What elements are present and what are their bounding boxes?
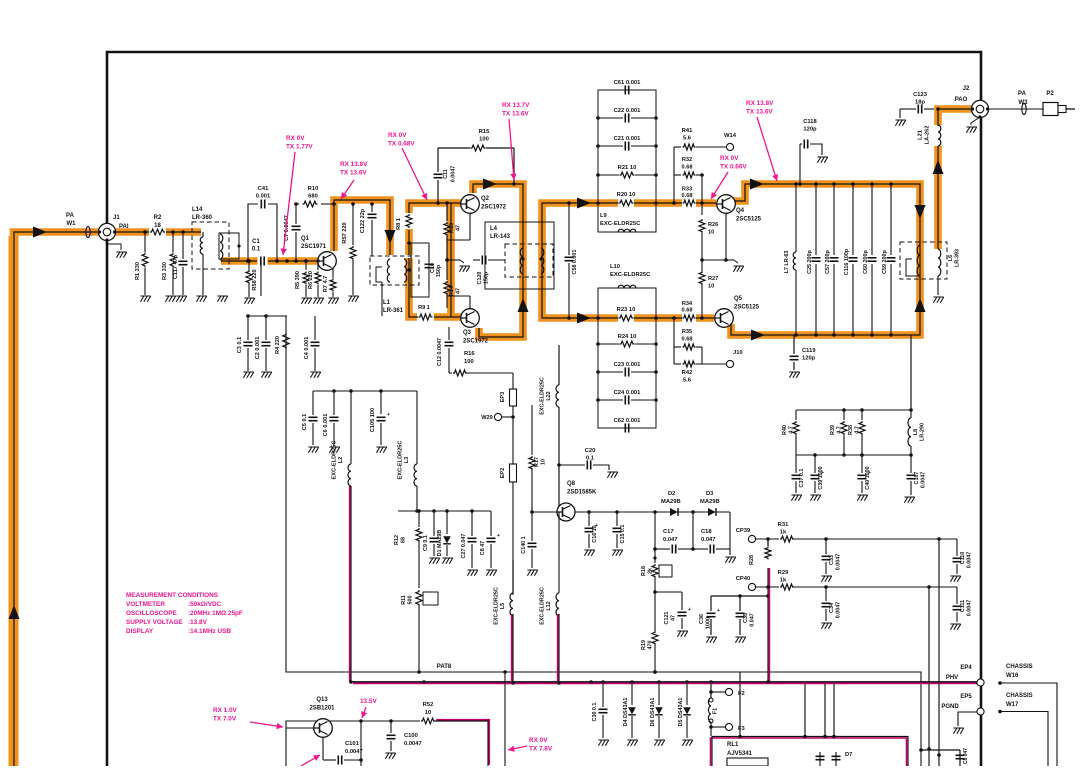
svg-text:Q3: Q3 (463, 330, 472, 336)
resistor R19 470 (652, 631, 658, 645)
ground under C37 (791, 495, 801, 501)
svg-text:680: 680 (308, 194, 318, 200)
ground under C110 (950, 576, 960, 582)
callout arrow 13.5V (362, 707, 366, 718)
svg-text:68: 68 (401, 537, 407, 543)
svg-text:C41: C41 (258, 186, 269, 192)
svg-text:RX 0V: RX 0V (529, 737, 548, 744)
svg-text:EXC-ELDR25C: EXC-ELDR25C (540, 587, 546, 625)
svg-text:R16: R16 (464, 351, 475, 357)
svg-text:C57 200p: C57 200p (825, 249, 831, 273)
vertical from bottom run to filter (910, 335, 912, 410)
svg-text:18: 18 (154, 223, 161, 229)
svg-text:DISPLAY: DISPLAY (126, 628, 154, 635)
svg-text:C4 0.001: C4 0.001 (304, 337, 310, 360)
svg-text:R6 220: R6 220 (308, 271, 314, 289)
svg-text:4.7: 4.7 (789, 426, 795, 434)
ground under C20 (607, 472, 617, 478)
svg-text:D3: D3 (706, 491, 714, 497)
svg-text:W16: W16 (1006, 673, 1019, 679)
svg-text:4.7: 4.7 (855, 426, 861, 434)
inductor L2 EXC-ELDR25C (350, 391, 352, 464)
svg-text:F1: F1 (713, 708, 719, 714)
svg-text:C1: C1 (252, 239, 260, 245)
svg-text:RX 0V: RX 0V (720, 155, 739, 162)
resistor R58 220 (248, 261, 250, 270)
capacitor C33 0.0047 (825, 539, 827, 554)
svg-text:RX 0V: RX 0V (388, 132, 407, 139)
svg-text:R52: R52 (423, 702, 434, 708)
svg-text:L21: L21 (918, 130, 924, 140)
ground under C30 (598, 740, 608, 746)
svg-text:C3 0.1: C3 0.1 (237, 337, 243, 353)
svg-text:TX 13.6V: TX 13.6V (340, 170, 367, 177)
svg-text:10: 10 (541, 459, 547, 465)
ground under C140 (527, 570, 537, 576)
svg-text:C140 1: C140 1 (521, 536, 527, 553)
ground under C119 (789, 372, 799, 378)
ground under R58 (244, 298, 254, 304)
svg-text:C62 0.001: C62 0.001 (614, 418, 642, 424)
svg-text:RX 13.8V: RX 13.8V (746, 100, 774, 107)
svg-text:W3: W3 (1019, 100, 1029, 106)
ground under C8 (486, 570, 496, 576)
svg-text:TX 7.8V: TX 7.8V (529, 746, 553, 753)
svg-text:Q2: Q2 (481, 196, 490, 202)
resistor R5 390 (305, 261, 307, 270)
cable to plug P2 (988, 108, 1043, 110)
capacitor C37 0.1 (792, 474, 801, 476)
relay unit outline (711, 738, 907, 768)
ground under C100 (385, 753, 395, 759)
vertical wire to lower units (504, 672, 506, 766)
svg-text:L14: L14 (192, 207, 203, 213)
transformer L6 LR-393 (900, 242, 947, 279)
ground under R1 (140, 296, 150, 302)
svg-text:RX 13.7V: RX 13.7V (502, 102, 530, 109)
terminal strip EP3 (512, 373, 514, 389)
svg-text:EXC-ELDR25C: EXC-ELDR25C (332, 441, 338, 480)
svg-text:R34: R34 (682, 301, 693, 307)
capacitor C3 0.1 (247, 316, 249, 340)
svg-text:120p: 120p (802, 356, 816, 362)
svg-text::13.8V: :13.8V (188, 619, 208, 626)
svg-text:R32: R32 (682, 157, 692, 163)
inductor L12 EXC-ELDR25C (558, 512, 560, 593)
wire 13.5V node (361, 720, 420, 722)
svg-text:C107: C107 (914, 472, 920, 485)
relay feed verticals (804, 683, 806, 736)
svg-text:C111: C111 (960, 600, 966, 612)
diode D4 DS43A1 (631, 682, 633, 705)
svg-text:SUPPLY VOLTAGE: SUPPLY VOLTAGE (126, 619, 183, 626)
svg-text:1k: 1k (780, 578, 787, 584)
svg-text:R11: R11 (401, 595, 407, 605)
svg-text:R17: R17 (534, 457, 540, 467)
svg-text:R4 220: R4 220 (275, 336, 281, 354)
svg-text:C118: C118 (803, 119, 817, 125)
resistor R14 47 (446, 260, 448, 280)
border frame of PA unit (107, 52, 981, 766)
svg-text:150p: 150p (484, 271, 490, 284)
svg-text:PAT8: PAT8 (437, 664, 452, 670)
ground at J1 (107, 240, 121, 250)
filter rails (796, 409, 911, 411)
svg-text:0.0047: 0.0047 (921, 472, 927, 489)
flow arrow right on bottom drive run (577, 313, 591, 324)
svg-text::14.1MHz USB: :14.1MHz USB (188, 628, 231, 635)
capacitor C12 0.0047 (448, 327, 450, 340)
capacitor C5 0.1 (312, 391, 314, 415)
svg-text:Q1: Q1 (301, 236, 310, 242)
svg-text:C6 0.001: C6 0.001 (323, 414, 329, 437)
callout arrow to Q13 base (250, 722, 283, 727)
capacitor C60 200p (871, 184, 873, 255)
svg-text:TX 7.0V: TX 7.0V (213, 716, 237, 723)
svg-text:C100: C100 (404, 733, 418, 739)
capacitor C25 200p (815, 184, 817, 255)
svg-text:R29: R29 (778, 570, 789, 576)
capacitor C111 0.0047 (956, 587, 958, 604)
resistor R26 10 (701, 203, 703, 215)
callout arrow to ring top (402, 148, 427, 200)
svg-text:D4 DS43A1: D4 DS43A1 (623, 698, 629, 727)
terminal J10 (726, 360, 733, 367)
svg-text:R8 1: R8 1 (396, 218, 402, 230)
connector J1 (98, 223, 115, 240)
svg-text:C23 0.001: C23 0.001 (614, 362, 642, 368)
ground under C123 (895, 120, 905, 126)
svg-text:C15 0.1: C15 0.1 (620, 525, 626, 544)
transistor Q1 2SC1971 (318, 252, 337, 271)
ground under C2 (261, 372, 271, 378)
svg-text:EP3: EP3 (500, 392, 506, 403)
flow arrow up to antenna J2 (933, 160, 944, 174)
svg-text:PGND: PGND (941, 704, 959, 710)
svg-text:C20: C20 (585, 448, 596, 454)
svg-text:R33: R33 (682, 187, 692, 193)
wires Q2/Q3 emitters to center (469, 214, 471, 240)
capacitor C4 0.001 (314, 316, 316, 340)
svg-text:1000: 1000 (706, 617, 712, 629)
transistor Q4 2SC5125 (717, 195, 736, 214)
svg-text:PHV: PHV (946, 675, 958, 681)
svg-text:0.047: 0.047 (701, 537, 716, 543)
svg-text:W17: W17 (1006, 702, 1019, 708)
resistor R9 1 (in ring path) (419, 314, 433, 320)
capacitor C16 10 (588, 512, 590, 526)
svg-text:RX 13.8V: RX 13.8V (340, 161, 368, 168)
capacitor C110 0.0047 (956, 539, 958, 556)
svg-text::50kΩ/VDC: :50kΩ/VDC (188, 601, 222, 608)
ladder verticals top (673, 147, 675, 203)
transistor Q5 2SC5125 (715, 309, 734, 328)
svg-text:L5: L5 (500, 603, 506, 609)
svg-text:R1 330: R1 330 (135, 262, 141, 280)
svg-text:C37 0.1: C37 0.1 (799, 469, 805, 488)
callout arrow to Q4 base (711, 172, 728, 199)
transformer L6.. L4 windings (505, 244, 553, 277)
ground under C3 (243, 372, 253, 378)
svg-text:+: + (497, 533, 500, 539)
svg-text:C61 0.001: C61 0.001 (614, 80, 642, 86)
svg-text:CP39: CP39 (736, 528, 751, 534)
svg-text:EXC-ELDR25C: EXC-ELDR25C (398, 441, 404, 480)
svg-text:C121: C121 (664, 612, 670, 625)
svg-text:R38: R38 (848, 425, 854, 435)
capacitor C121 47 (655, 591, 682, 593)
svg-text:0.047: 0.047 (750, 613, 756, 627)
svg-text:R3 330: R3 330 (162, 262, 168, 280)
svg-text:EXC-ELDR25C: EXC-ELDR25C (494, 587, 500, 625)
svg-text:TX 13.6V: TX 13.6V (502, 111, 529, 118)
feed wire L5 to bus (511, 614, 513, 682)
capacitor C39 1000 (814, 455, 816, 473)
svg-text:R10: R10 (308, 186, 319, 192)
resistor R12 68 (418, 511, 420, 527)
svg-text:C27 0.047: C27 0.047 (461, 534, 467, 559)
svg-text:0.001: 0.001 (256, 194, 271, 200)
ground under C40 (857, 495, 867, 501)
svg-text:2SB1201: 2SB1201 (309, 706, 335, 712)
svg-text:EP5: EP5 (960, 694, 972, 700)
capacitor C9 0.1 (433, 511, 435, 536)
svg-text:R12: R12 (394, 535, 400, 545)
ground under D6 (654, 740, 664, 746)
svg-text:+: + (387, 412, 390, 418)
ground under R6 (313, 298, 323, 304)
flow arrow up into L4 (518, 298, 529, 312)
feed wire from L2 to supply bus (349, 486, 351, 682)
inductor L8 LR-290 (908, 418, 911, 446)
svg-text:L7 LR-63: L7 LR-63 (784, 251, 790, 274)
ground under D4 (627, 740, 637, 746)
svg-text:EP2: EP2 (500, 468, 506, 479)
svg-text:+: + (717, 608, 720, 614)
svg-text:R27: R27 (708, 276, 718, 282)
capacitor C41 0.001 (248, 204, 258, 261)
svg-text:R18: R18 (641, 566, 647, 576)
transformer L1 LR-361 (370, 256, 419, 285)
supply bus PHV (353, 682, 977, 684)
emitter wire of Q1 (332, 268, 334, 278)
rail of C5/C6 (313, 390, 417, 392)
feed wire L12 to bus (557, 614, 559, 682)
wire Q8 output row (575, 511, 730, 513)
svg-text:150p: 150p (436, 264, 442, 277)
ground under C16 (584, 550, 594, 556)
svg-text:J10: J10 (733, 350, 743, 356)
svg-text:2SC1971: 2SC1971 (301, 244, 327, 250)
svg-text:1k: 1k (780, 530, 787, 536)
svg-text:C24 0.001: C24 0.001 (614, 390, 642, 396)
resistor R7 4.7 (330, 279, 336, 292)
ground under C6 (329, 447, 339, 453)
rail of R12 cluster (398, 510, 491, 512)
resistor R20 10 (in path) (619, 200, 634, 206)
svg-text:F3: F3 (738, 726, 746, 732)
ground under R5 (301, 298, 311, 304)
svg-text:C120: C120 (477, 272, 483, 285)
svg-text:P2: P2 (1046, 91, 1054, 97)
resistor R39 4.7 (843, 410, 845, 420)
svg-text:C5 0.1: C5 0.1 (302, 414, 308, 430)
svg-text:10: 10 (708, 284, 714, 290)
connector J2 (971, 100, 988, 117)
feed wire CP40 to bus (768, 568, 770, 682)
svg-text:CP40: CP40 (736, 576, 751, 582)
svg-text:C36: C36 (699, 614, 705, 624)
regulator sub-box (286, 721, 361, 766)
svg-text:C40 1000: C40 1000 (865, 466, 871, 489)
svg-text:D2: D2 (668, 491, 675, 497)
svg-text:CHASSIS: CHASSIS (1006, 693, 1033, 699)
ground under C4 (310, 372, 320, 378)
ground under C117 (176, 296, 186, 302)
svg-text:0.047: 0.047 (663, 537, 678, 543)
svg-text:MEASUREMENT CONDITIONS: MEASUREMENT CONDITIONS (126, 592, 219, 599)
svg-text:L22: L22 (546, 391, 552, 400)
svg-text:MA29B: MA29B (661, 499, 681, 505)
transformer L14 LR-360 (192, 222, 229, 269)
svg-text:C110: C110 (960, 552, 966, 565)
resistor R17 10 (531, 405, 533, 455)
svg-text:D5 DS43A1: D5 DS43A1 (678, 698, 684, 727)
svg-text:0.0047: 0.0047 (836, 602, 842, 619)
svg-text:4.7: 4.7 (837, 426, 843, 434)
resistor R11 500 with preset box (416, 590, 422, 606)
resistor R23 10 (in path) (619, 315, 634, 321)
svg-text:C39 1000: C39 1000 (818, 466, 824, 489)
svg-text:L3: L3 (404, 457, 410, 464)
svg-text:PA: PA (1018, 91, 1027, 97)
orange highlighted TX signal path (14, 232, 202, 766)
svg-text:CHASSIS: CHASSIS (1006, 664, 1033, 670)
svg-text:R21 10: R21 10 (618, 165, 637, 171)
svg-text:C33: C33 (829, 555, 835, 565)
svg-text:PA: PA (66, 213, 75, 219)
flow arrow right near J1 (33, 227, 47, 238)
svg-text:D1 MA29B: D1 MA29B (437, 530, 443, 557)
inductor L22 EXC-ELDR25C (558, 345, 560, 385)
svg-text:MA29B: MA29B (700, 499, 720, 505)
ground at C18 (729, 549, 731, 555)
ground under R57 (348, 296, 358, 302)
svg-text:R20 10: R20 10 (617, 192, 636, 198)
ground under C36 (706, 637, 716, 643)
terminal W14 (726, 143, 733, 150)
svg-text:C17: C17 (663, 529, 674, 535)
svg-text:C16 10: C16 10 (592, 525, 598, 542)
flow arrow up into L6 from bottom (915, 298, 926, 312)
ground under C15 (612, 550, 622, 556)
ground of L6 secondary (937, 276, 939, 295)
svg-text:5.6: 5.6 (683, 378, 692, 384)
svg-text:R24 10: R24 10 (618, 334, 637, 340)
svg-text:C60 200p: C60 200p (863, 249, 869, 273)
ground under R3 (165, 296, 175, 302)
svg-text:47: 47 (456, 225, 462, 231)
capacitor C58 0.001 (568, 203, 570, 255)
callout arrow to C1 node (283, 152, 295, 255)
ground mid final stage (733, 266, 743, 272)
svg-text:C12 0.0047: C12 0.0047 (437, 338, 443, 366)
capacitor C30 0.1 (602, 682, 604, 707)
svg-text:TX 1.77V: TX 1.77V (286, 144, 313, 151)
svg-text:W14: W14 (724, 133, 737, 139)
cable marker W1 (86, 227, 90, 238)
terminal strip EP2 (512, 417, 514, 464)
junction dots on unit rail (653, 670, 657, 674)
capacitor C120 150p (473, 259, 480, 261)
bus junction dots (349, 680, 353, 684)
inductor L3 EXC-ELDR25C (416, 391, 418, 464)
svg-text:C30 0.1: C30 0.1 (592, 703, 598, 722)
capacitor C7 0.0047 (295, 204, 297, 224)
svg-text:D7: D7 (845, 752, 852, 758)
svg-text:47: 47 (671, 615, 677, 621)
svg-text:0.0047: 0.0047 (451, 166, 457, 183)
svg-text:R15: R15 (479, 129, 490, 135)
svg-text:Q8: Q8 (567, 481, 576, 487)
inductor L5 EXC-ELDR25C (512, 560, 514, 593)
ground under C34 (821, 623, 831, 629)
svg-text:0.0047: 0.0047 (404, 741, 422, 747)
capacitor C101 150p (bias) (428, 245, 430, 262)
emitter wire Q13 (322, 737, 324, 760)
svg-text:C34: C34 (829, 603, 835, 613)
svg-text:L6: L6 (948, 255, 954, 261)
rail to bias caps (248, 315, 287, 317)
svg-text:AJV5341: AJV5341 (727, 751, 753, 757)
svg-text:C9 0.1: C9 0.1 (423, 535, 429, 551)
resistor R38 4.7 (861, 410, 863, 420)
svg-text:R5 390: R5 390 (295, 271, 301, 289)
capacitor C119 120p (793, 335, 795, 354)
fuse F1 with F2/F3 terminals (710, 682, 712, 698)
shield box L4 LR-143 (485, 222, 554, 289)
svg-text:C21 0.001: C21 0.001 (614, 136, 642, 142)
svg-text:C116 100p: C116 100p (844, 248, 850, 275)
svg-text:0.0047: 0.0047 (836, 554, 842, 571)
svg-text:2SC5125: 2SC5125 (734, 305, 760, 311)
svg-text:L10: L10 (610, 264, 620, 270)
svg-text:TX 13.6V: TX 13.6V (746, 109, 773, 116)
svg-text:R23 10: R23 10 (617, 307, 636, 313)
capacitor C36 1000 (710, 596, 712, 611)
ground under C111 (950, 624, 960, 630)
svg-text:RX 0V: RX 0V (286, 135, 305, 142)
svg-text:10: 10 (708, 230, 714, 236)
svg-text:R42: R42 (682, 370, 693, 376)
svg-text:Q4: Q4 (736, 208, 745, 214)
capacitor C107 0.0047 (910, 455, 912, 473)
callout arrow to Q1 collector (341, 180, 354, 199)
capacitor C2 0.001 (265, 316, 267, 340)
svg-text:18p: 18p (915, 100, 925, 106)
svg-text:2k: 2k (648, 568, 654, 574)
svg-text:D6 DS43A1: D6 DS43A1 (650, 698, 656, 727)
ground under C33 (821, 576, 831, 582)
svg-text::20MHz 1MΩ 25pF: :20MHz 1MΩ 25pF (188, 610, 243, 617)
plug P2 (1043, 103, 1058, 116)
svg-text:Q13: Q13 (316, 697, 328, 703)
svg-text:R39: R39 (830, 425, 836, 435)
svg-text:100: 100 (464, 359, 474, 365)
svg-text:C117 47p: C117 47p (173, 254, 179, 279)
ground under C5 (308, 447, 318, 453)
svg-text:PAI: PAI (119, 224, 129, 230)
